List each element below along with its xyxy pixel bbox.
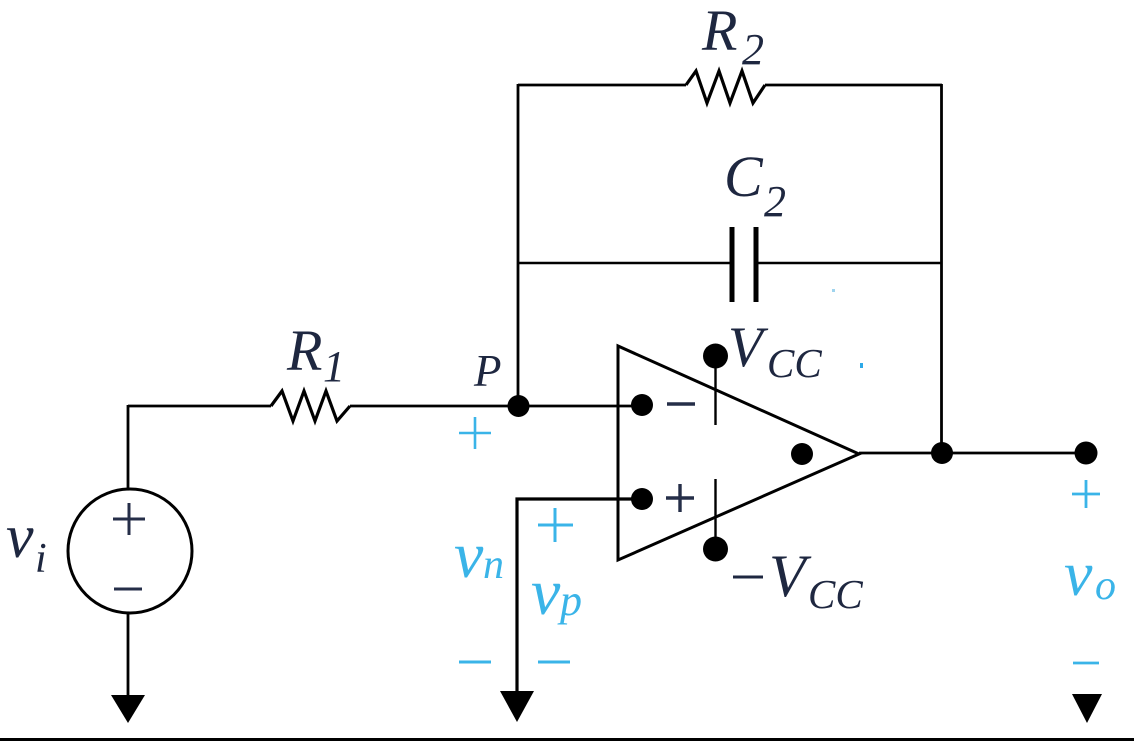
label -VCC [733, 543, 863, 617]
label vn [454, 519, 504, 592]
output junction dot [931, 442, 953, 464]
bottom border line [0, 738, 1134, 741]
svg-text:2: 2 [742, 25, 764, 74]
wire: C2 left segment [518, 262, 731, 264]
svg-text:v: v [6, 503, 34, 571]
voltage source vi circle [68, 489, 192, 613]
resistor R1 [271, 391, 350, 421]
op-amp U1 triangle [618, 346, 859, 560]
ground arrow (vi) [111, 695, 145, 723]
wire: left feedback vertical [517, 84, 520, 406]
power pin -VCC dot [703, 537, 728, 562]
resistor R2 [686, 71, 765, 103]
op-amp inverting input dot [631, 394, 653, 416]
voltage source minus sign [114, 588, 142, 591]
stray cyan speck near C2 line [832, 289, 835, 292]
svg-text:C: C [724, 144, 764, 209]
svg-text:R: R [701, 0, 737, 63]
svg-text:CC: CC [767, 340, 822, 386]
svg-text:p: p [557, 576, 582, 625]
svg-text:P: P [473, 346, 502, 396]
svg-text:o: o [1095, 563, 1116, 609]
op-amp output dot [791, 443, 813, 465]
svg-text:n: n [483, 542, 504, 588]
label R2 [701, 0, 764, 74]
wire: non-inverting input to ground (vp wire) [517, 499, 642, 692]
ground arrow (vp) [500, 691, 534, 722]
wire: input left segment [128, 405, 271, 408]
annotation: cyan plus at node P [459, 417, 491, 449]
annotation: cyan plus at vo [1072, 480, 1100, 508]
wire: top feedback left segment [518, 84, 686, 87]
svg-text:v: v [531, 556, 561, 629]
stray cyan speck near VCC [860, 363, 863, 368]
label R1 [286, 318, 345, 391]
wire: input right segment to op-amp inverting input [350, 405, 642, 408]
annotation: cyan minus at vn [459, 661, 491, 664]
power pin VCC dot [703, 344, 728, 369]
svg-text:V: V [769, 543, 812, 609]
annotation: cyan plus at vp [538, 508, 573, 542]
svg-text:2: 2 [764, 177, 786, 226]
annotation: cyan minus at vo [1073, 662, 1099, 665]
wire: source bottom vertical [127, 613, 130, 697]
op-amp minus sign [667, 402, 695, 405]
wire: source top vertical [127, 405, 130, 489]
label vo [1064, 538, 1116, 609]
wire: output [859, 452, 1086, 455]
annotation: cyan minus at vp [538, 661, 570, 664]
node P junction dot [508, 395, 530, 417]
svg-text:1: 1 [323, 342, 345, 391]
output terminal node dot [1075, 442, 1098, 465]
svg-text:i: i [35, 536, 47, 582]
op-amp plus sign [666, 484, 694, 512]
label C2 [724, 144, 786, 226]
svg-text:v: v [454, 519, 484, 592]
label vp [531, 556, 582, 629]
svg-text:v: v [1064, 538, 1093, 609]
label vi [6, 503, 47, 582]
op-amp non-inverting input dot [631, 488, 653, 510]
svg-text:R: R [286, 318, 322, 383]
ground arrow (vo) [1072, 694, 1102, 723]
wire: right feedback vertical [940, 84, 943, 453]
capacitor C2 [732, 227, 756, 302]
voltage source plus sign [113, 503, 145, 535]
svg-text:CC: CC [808, 571, 863, 617]
wire: top feedback right segment [765, 84, 942, 87]
power pin -VCC wire [714, 479, 716, 549]
wire: C2 right segment [757, 262, 942, 264]
power pin VCC wire [714, 357, 716, 425]
svg-text:V: V [728, 316, 769, 379]
label VCC [728, 316, 822, 386]
